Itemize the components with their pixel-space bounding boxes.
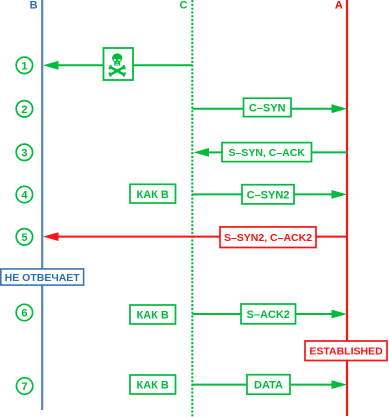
arrowhead row5 at B: [43, 232, 59, 241]
svg-text:КАК В: КАК В: [137, 310, 169, 322]
svg-text:3: 3: [21, 147, 27, 159]
step circle 6: [16, 304, 32, 320]
label S-SYN2, C-ACK2: [220, 227, 316, 248]
label NE OTVECHAET: [1, 269, 84, 285]
svg-text:C–SYN: C–SYN: [249, 103, 286, 115]
label C-SYN2: [242, 185, 294, 204]
svg-text:C–SYN2: C–SYN2: [247, 189, 290, 201]
step circle 1: [16, 57, 32, 73]
arrowhead row3 at C: [194, 148, 210, 157]
svg-text:B: B: [30, 0, 38, 12]
label KAK B row4: [130, 184, 176, 203]
attacker skull box: [104, 48, 134, 80]
step circle 7: [16, 378, 32, 394]
lifeline A: [346, 0, 348, 416]
label S-SYN, C-ACK: [222, 143, 312, 162]
lifeline B: [41, 0, 43, 410]
svg-text:2: 2: [21, 104, 27, 116]
step circle 3: [16, 144, 32, 160]
step circle 4: [16, 186, 32, 202]
lifeline C (dotted): [191, 0, 193, 417]
svg-text:C: C: [180, 0, 188, 12]
wire row1 C to B: [55, 64, 192, 66]
svg-text:A: A: [335, 0, 343, 12]
arrowhead row2 at A: [332, 104, 348, 113]
label KAK B row7: [130, 375, 176, 394]
svg-text:S–SYN2, C–ACK2: S–SYN2, C–ACK2: [224, 232, 312, 244]
lifeline C label: [180, 0, 188, 12]
svg-text:6: 6: [21, 308, 27, 320]
svg-text:1: 1: [21, 60, 27, 72]
svg-text:5: 5: [21, 232, 27, 244]
svg-text:S–ACK2: S–ACK2: [246, 309, 289, 321]
svg-text:КАК В: КАК В: [137, 189, 169, 201]
label DATA: [247, 375, 290, 395]
arrowhead row1 at B: [43, 61, 59, 70]
label S-ACK2: [241, 304, 296, 324]
svg-text:DATA: DATA: [254, 380, 283, 392]
arrowhead row4 at A: [332, 190, 348, 199]
label KAK B row6: [130, 305, 176, 324]
svg-text:4: 4: [21, 190, 28, 202]
wire row3 A to C: [206, 151, 347, 153]
skull icon: [109, 53, 126, 76]
svg-text:7: 7: [22, 381, 28, 393]
wire row4 C to A: [192, 193, 333, 195]
step circle 2: [16, 101, 32, 117]
wire row7 C to A: [192, 384, 333, 386]
svg-text:КАК В: КАК В: [137, 380, 169, 392]
svg-text:НЕ ОТВЕЧАЕТ: НЕ ОТВЕЧАЕТ: [5, 272, 81, 284]
step circle 5: [16, 229, 32, 245]
arrowhead row6 at A: [332, 310, 348, 319]
wire row2 C to A: [192, 108, 333, 110]
lifeline A label: [335, 0, 343, 12]
label C-SYN: [244, 98, 292, 116]
svg-text:S–SYN, C–ACK: S–SYN, C–ACK: [228, 147, 305, 159]
arrowhead row7 at A: [332, 380, 348, 389]
svg-text:ESTABLISHED: ESTABLISHED: [309, 346, 383, 358]
lifeline B label: [30, 0, 38, 12]
wire row5 A to B (red): [55, 236, 347, 238]
label ESTABLISHED: [305, 341, 387, 361]
wire row6 C to A: [192, 313, 333, 315]
